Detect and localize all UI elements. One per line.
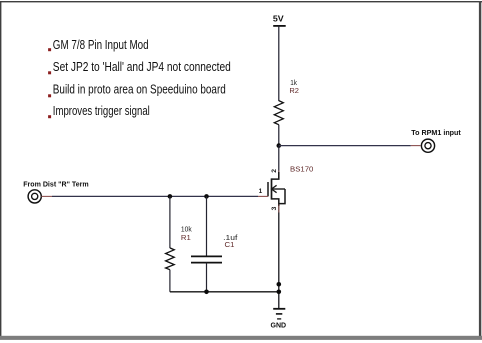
wire source down to ground [278,205,280,213]
drain jog [272,172,279,179]
wire R1 top lead [169,196,171,248]
svg-text:Set JP2 to 'Hall' and JP4 not: Set JP2 to 'Hall' and JP4 not connected [53,59,231,74]
connector pin To RPM1 [411,145,421,147]
connector pin From Dist [41,195,52,197]
svg-text:Improves trigger signal: Improves trigger signal [53,103,150,118]
bottom wire R1/C1/source [170,291,279,293]
node junction R2/output/drain [277,143,282,148]
wire From Dist to gate [52,195,258,197]
junction source upper [277,282,282,287]
svg-text:1: 1 [259,188,263,195]
svg-text:GND: GND [271,323,287,330]
wire R1 bottom lead [169,270,171,292]
body loop [279,189,285,204]
junction C1 top [204,194,209,199]
channel bar [271,178,273,199]
connector From Dist "R" Term [23,180,89,203]
junction R1 top [168,194,173,199]
svg-text:5V: 5V [273,14,284,23]
annotation note 4 [48,103,150,118]
wire C1 bottom lead [206,263,208,292]
svg-text:C1: C1 [225,240,235,249]
svg-text:To RPM1 input: To RPM1 input [411,128,461,137]
wire R2 to output node [278,125,280,146]
junction C1 bottom [204,290,209,295]
svg-text:Build in proto area on Speedui: Build in proto area on Speeduino board [53,82,226,97]
wire C1 top lead [206,196,208,256]
gate bar [267,182,269,196]
svg-text:GM 7/8 Pin Input Mod: GM 7/8 Pin Input Mod [53,37,149,52]
annotation note 1 [48,37,149,52]
transistor Q1 BS170 [258,164,313,210]
svg-text:R2: R2 [289,86,299,95]
gate pin [258,195,268,197]
svg-text:From Dist "R" Term: From Dist "R" Term [23,180,89,189]
ground symbol [271,309,287,330]
svg-text:3: 3 [271,206,278,210]
resistor R2 [274,101,283,125]
svg-text:BS170: BS170 [290,164,313,173]
wire node to drain [278,146,280,171]
resistor R1 [166,248,175,270]
power symbol 5V [273,14,286,26]
junction source bottom [277,290,282,295]
svg-text:2: 2 [271,169,278,173]
connector To RPM1 input [411,128,461,152]
body line with arrow [272,188,286,190]
svg-text:R1: R1 [181,233,191,242]
annotation note 2 [48,59,231,74]
capacitor C1 [191,256,222,262]
wire 5V to R2 [278,26,280,102]
wire node to RPM1 connector [279,145,411,147]
annotation note 3 [48,82,226,98]
source jog [272,199,279,206]
